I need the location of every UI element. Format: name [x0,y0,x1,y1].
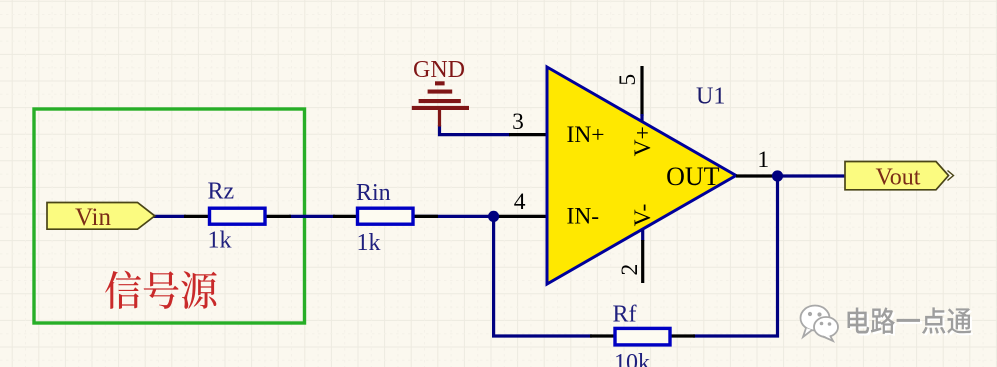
signal source green box [34,109,305,323]
svg-text:4: 4 [514,189,526,215]
svg-text:1k: 1k [357,230,381,256]
port Vout [845,162,949,190]
pin 1 (OUT) [736,174,773,177]
label 信号源 (signal source) [105,271,217,309]
watermark text 电路一点通 white emboss [850,309,974,335]
pin 2 (V-) [641,230,644,284]
svg-text:2: 2 [617,264,643,276]
svg-text:Vin: Vin [75,204,111,231]
svg-text:5: 5 [615,74,641,86]
svg-text:V-: V- [630,204,656,227]
pin 5 (V+) [640,66,643,122]
svg-text:U1: U1 [696,84,725,110]
svg-text:Vout: Vout [876,165,921,191]
port Vin [47,203,155,230]
pin 4 (IN-) [497,215,547,218]
wire Rin to node A [411,215,494,218]
wire Rz to Rin [289,215,335,218]
feedback wire node A down to Rf [494,216,592,336]
pin 3 (IN+) [509,133,547,136]
resistor Rin [333,208,438,224]
svg-text:IN-: IN- [567,204,600,230]
watermark logo eyes [808,312,831,326]
svg-text:Rz: Rz [208,179,235,205]
feedback wire Rf to output node [693,176,778,336]
ground symbol [412,81,469,126]
wire Vin to Rz [153,215,186,218]
svg-text:IN+: IN+ [567,122,605,148]
op-amp U1 body [547,67,736,284]
svg-text:OUT: OUT [666,162,720,191]
junction output node [772,170,783,181]
svg-text:1: 1 [757,147,769,173]
resistor Rz [184,208,291,224]
resistor Rf [590,328,695,345]
watermark text 电路一点通 [848,307,972,333]
svg-text:3: 3 [512,109,524,135]
svg-text:GND: GND [413,57,465,83]
svg-text:Rf: Rf [613,302,637,328]
svg-text:Rin: Rin [356,180,391,206]
svg-text:1k: 1k [208,228,232,254]
svg-text:10k: 10k [614,350,650,367]
port Vout tip chevron [948,171,954,181]
wire GND to pin 3 [440,125,511,135]
svg-text:V+: V+ [630,126,656,156]
watermark logo chat bubbles [801,306,839,342]
junction node A [488,211,499,222]
wire output node to Vout [776,174,847,177]
